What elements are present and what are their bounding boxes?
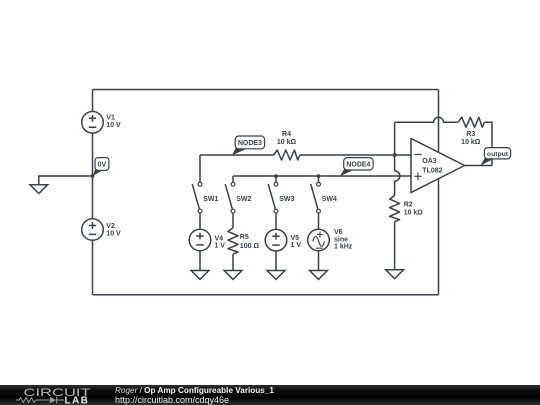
op-amp OA3 (TL082) xyxy=(411,138,465,192)
svg-text:TL082: TL082 xyxy=(422,167,442,174)
CircuitLab logo wordmark xyxy=(24,385,92,398)
svg-text:10 kΩ: 10 kΩ xyxy=(277,139,297,146)
svg-text:10 V: 10 V xyxy=(106,122,121,129)
wire feedback horizontal with hop over rail xyxy=(395,117,458,122)
wire SW3 to V5 xyxy=(275,213,277,230)
wire R2 vertical with hop over NODE4 xyxy=(395,155,400,195)
svg-text:V2: V2 xyxy=(106,223,115,230)
svg-text:NODE4: NODE4 xyxy=(346,162,370,169)
svg-text:LAB: LAB xyxy=(65,395,90,405)
switch SW3 xyxy=(268,182,294,213)
svg-text:100 Ω: 100 Ω xyxy=(240,243,260,250)
svg-text:http://circuitlab.com/cdqy46e: http://circuitlab.com/cdqy46e xyxy=(115,394,229,404)
switch SW2 xyxy=(225,182,251,213)
junction dot SW4 top xyxy=(317,174,320,177)
wire right rail xyxy=(438,90,440,295)
svg-text:SW3: SW3 xyxy=(279,196,294,203)
ground under R5 xyxy=(224,271,242,280)
label output xyxy=(480,148,510,166)
svg-text:V4: V4 xyxy=(215,235,224,242)
svg-text:output: output xyxy=(487,151,509,158)
wire 0V node to ground xyxy=(39,176,93,185)
svg-text:1 V: 1 V xyxy=(291,242,302,249)
logo resistor-diode glyph xyxy=(16,396,64,402)
resistor R3 xyxy=(458,117,484,146)
wire V4 to ground xyxy=(199,251,201,271)
resistor R2 xyxy=(390,195,424,221)
wire R2 to ground xyxy=(394,222,396,270)
voltage source V1 xyxy=(82,112,121,134)
ground (0V node) xyxy=(30,185,48,194)
svg-text:R5: R5 xyxy=(240,234,249,241)
junction dot 0V node xyxy=(91,174,94,177)
resistor R4 xyxy=(274,131,300,160)
wire op-amp output xyxy=(465,165,492,167)
wire R5 to ground xyxy=(232,254,234,270)
voltage source V4 xyxy=(189,229,225,251)
wire top rail xyxy=(93,89,439,91)
svg-text:10 kΩ: 10 kΩ xyxy=(461,139,481,146)
wire SW2 to R5 xyxy=(232,213,234,228)
resistor R5 xyxy=(228,228,259,254)
svg-text:SW1: SW1 xyxy=(203,196,218,203)
svg-text:OA3: OA3 xyxy=(422,158,437,165)
switch SW1 xyxy=(192,182,218,213)
wire V1-V2 middle segment xyxy=(92,133,94,219)
label NODE4 xyxy=(340,158,373,177)
svg-text:R3: R3 xyxy=(466,131,475,138)
wire NODE3 horizontal xyxy=(200,154,274,156)
svg-text:V5: V5 xyxy=(291,235,300,242)
wire bottom rail xyxy=(93,294,439,296)
ground under V5 xyxy=(267,271,285,280)
wire SW1 to V4 xyxy=(199,213,201,229)
svg-text:SW2: SW2 xyxy=(236,196,251,203)
wire V5 to ground xyxy=(275,251,277,271)
svg-text:0V: 0V xyxy=(98,162,107,169)
wire V2 bottom stub xyxy=(92,240,94,295)
voltage source V2 xyxy=(82,219,121,241)
svg-text:NODE3: NODE3 xyxy=(238,140,262,147)
svg-text:10 kΩ: 10 kΩ xyxy=(404,210,424,217)
footer bar xyxy=(0,385,540,405)
wire V1 top stub xyxy=(92,90,94,112)
voltage source V6 (sine) xyxy=(308,229,353,251)
wire SW4 stub xyxy=(318,176,320,182)
svg-text:1 V: 1 V xyxy=(215,243,226,250)
ground under V4 xyxy=(191,271,209,280)
voltage source V5 xyxy=(265,229,301,251)
wire NODE4 stub to SW2 xyxy=(232,176,234,182)
svg-text:SW4: SW4 xyxy=(322,196,337,203)
svg-text:V6: V6 xyxy=(334,229,343,236)
svg-text:sine: sine xyxy=(334,236,348,243)
label NODE3 xyxy=(232,136,265,155)
wire NODE4 horizontal xyxy=(233,175,411,177)
wire NODE3 stub to SW1 xyxy=(199,155,201,182)
svg-text:R2: R2 xyxy=(404,202,413,209)
svg-text:V1: V1 xyxy=(106,115,115,122)
ground under R2 xyxy=(386,270,404,279)
ground under V6 xyxy=(310,271,328,280)
svg-text:1 kHz: 1 kHz xyxy=(334,244,353,251)
wire R3 to output corner xyxy=(484,122,492,165)
wire feedback riser xyxy=(394,122,396,155)
svg-text:10 V: 10 V xyxy=(106,231,121,238)
wire SW3 stub xyxy=(275,176,277,182)
wire R4 to op-amp minus input xyxy=(300,154,411,156)
junction dot minus node xyxy=(393,153,396,156)
junction dot SW3 top xyxy=(274,174,277,177)
wire V6 to ground xyxy=(318,251,320,271)
svg-text:R4: R4 xyxy=(282,131,291,138)
switch SW4 xyxy=(311,182,337,213)
wire SW4 to V6 xyxy=(318,213,320,229)
label 0V xyxy=(93,158,109,176)
